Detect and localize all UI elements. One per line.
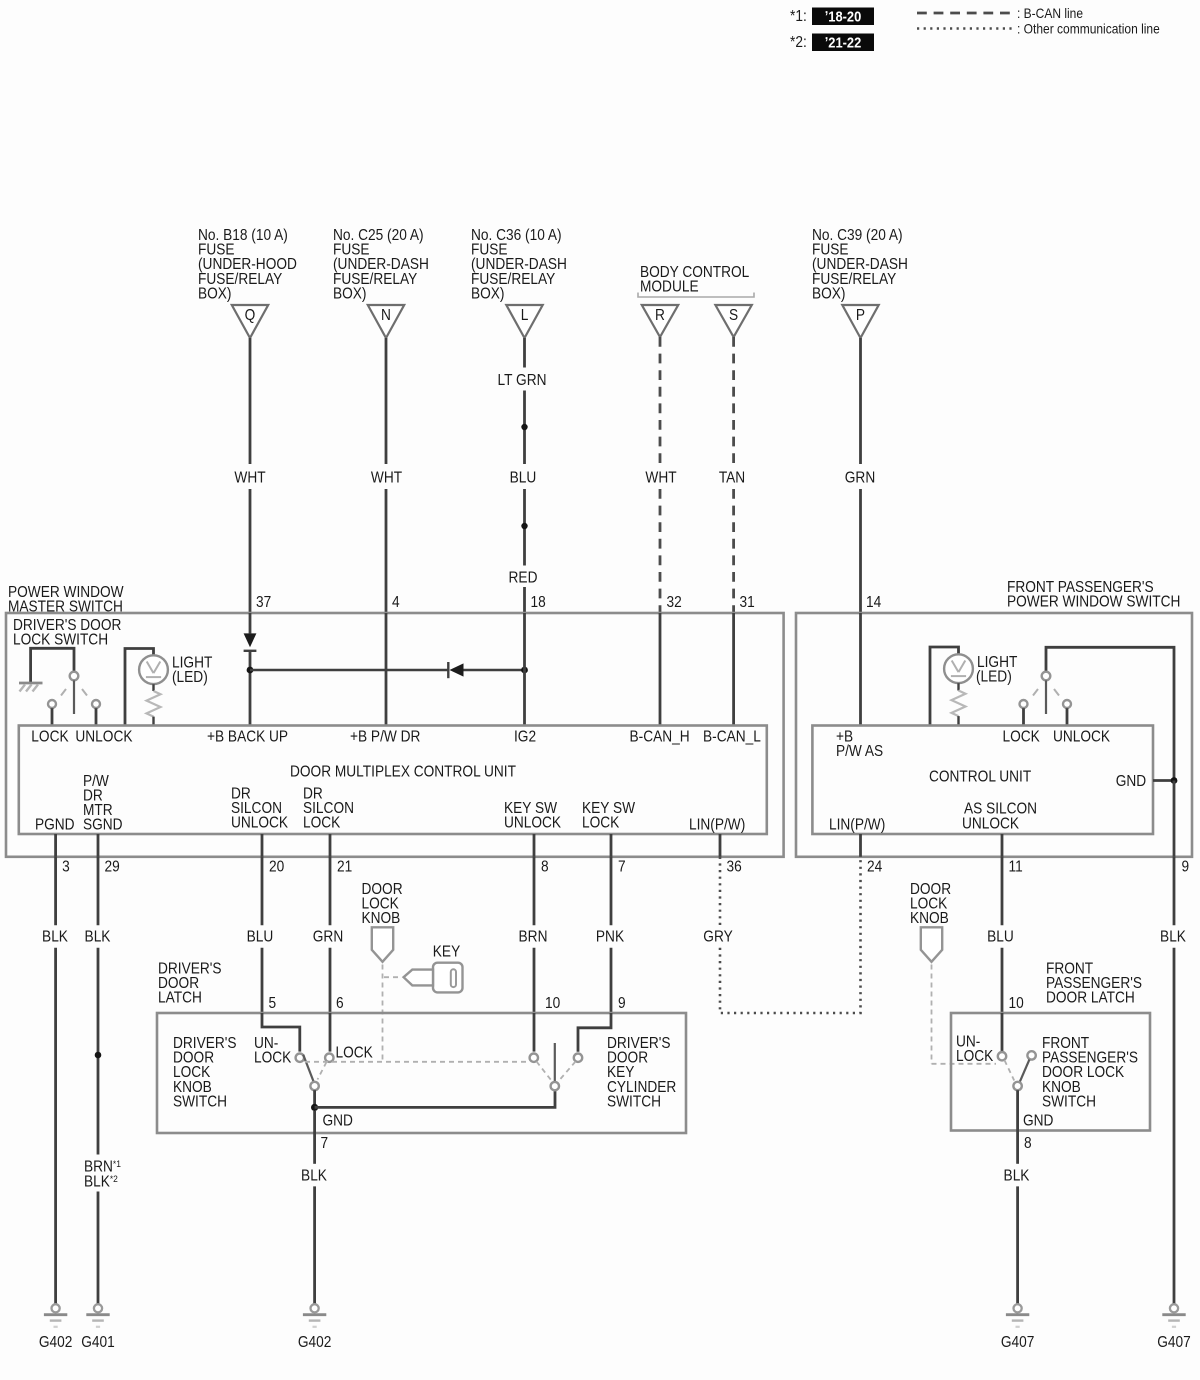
svg-text:BOX): BOX)	[471, 286, 504, 303]
unit pin label GND (passenger)	[1116, 773, 1146, 790]
unit pin label UNLOCK (passenger)	[1053, 729, 1110, 746]
svg-text:BLK: BLK	[42, 929, 68, 946]
wire 29 BLK to G401	[97, 857, 100, 1304]
unit pin label B-CAN_H	[630, 729, 690, 746]
svg-text:*2:: *2:	[790, 34, 807, 51]
unit pin label +B BACK UP	[207, 729, 288, 746]
svg-text:UNLOCK: UNLOCK	[962, 816, 1019, 833]
splice dot on wire 18 upper	[521, 424, 527, 430]
svg-text:LOCK: LOCK	[1003, 729, 1041, 746]
knob switch pivot (driver)	[310, 1082, 318, 1090]
resistor stub to unit (passenger)	[957, 716, 959, 725]
unit pin label LOCK (passenger)	[1003, 729, 1041, 746]
wire 14 inside box	[859, 613, 862, 726]
diode bar on horizontal wire	[447, 662, 449, 678]
svg-text:MODULE: MODULE	[640, 279, 699, 296]
passenger switch LOCK contact	[1020, 700, 1028, 726]
svg-text:ʼ21-22: ʼ21-22	[825, 35, 862, 51]
svg-text:G407: G407	[1157, 1334, 1190, 1351]
passenger lock switch arm	[1045, 680, 1047, 714]
svg-text:B-CAN_L: B-CAN_L	[703, 729, 761, 746]
key cyl pivot	[551, 1082, 559, 1090]
driver door latch box	[157, 1013, 686, 1133]
wire pin9 inside box	[1173, 781, 1176, 857]
label BLK (wire 3)	[42, 929, 68, 946]
svg-text:G407: G407	[1001, 1334, 1034, 1351]
body control module label	[640, 264, 749, 296]
svg-text:7: 7	[618, 859, 626, 876]
pin 9 (driver latch)	[618, 995, 626, 1012]
svg-text:18: 18	[531, 594, 546, 611]
unit pin label DR SILCON UNLOCK	[231, 786, 288, 832]
wire 31 inside box	[732, 613, 735, 726]
pin 11 (passenger box bottom)	[1009, 859, 1023, 876]
pin 18	[531, 594, 546, 611]
svg-text:UNLOCK: UNLOCK	[504, 815, 561, 832]
label BLK (wire 7)	[301, 1168, 327, 1185]
unit pin label KEY SW UNLOCK	[504, 800, 561, 832]
LED-resistor stub (master)	[152, 684, 154, 691]
unit pin label LOCK	[31, 729, 69, 746]
GND junction dot (driver latch)	[311, 1104, 318, 1111]
svg-text:GND: GND	[1023, 1113, 1053, 1130]
splice dot on wire 29	[95, 1052, 102, 1059]
svg-text:37: 37	[256, 594, 271, 611]
wire 5 inside latch	[262, 1013, 300, 1052]
unit pin label DR SILCON LOCK	[303, 786, 354, 832]
svg-text:SWITCH: SWITCH	[173, 1094, 227, 1111]
svg-text:SWITCH: SWITCH	[607, 1094, 661, 1111]
svg-text:4: 4	[392, 594, 400, 611]
stub wire pin11	[1001, 834, 1004, 857]
label UN-LOCK (passenger latch)	[956, 1034, 994, 1066]
wire 36 GRY dotted LIN loop to pin 24	[720, 857, 861, 1013]
svg-text:P/W AS: P/W AS	[836, 743, 883, 760]
unit name DOOR MULTIPLEX CONTROL UNIT	[290, 764, 516, 781]
svg-text:LOCK SWITCH: LOCK SWITCH	[13, 632, 108, 649]
svg-text:20: 20	[269, 859, 284, 876]
wire 4 inside box	[385, 613, 388, 726]
svg-text:LOCK: LOCK	[336, 1045, 374, 1062]
key symbol	[404, 963, 463, 993]
svg-text:BRN: BRN	[519, 929, 548, 946]
knob switch arm (driver)	[303, 1055, 313, 1082]
svg-text:24: 24	[867, 859, 882, 876]
mech dashed horizontal knob-keycyl	[305, 1061, 529, 1063]
splice dot on wire 18 lower	[521, 523, 527, 529]
svg-text:GRN: GRN	[845, 470, 875, 487]
fuse No. C36 (10 A) label	[471, 227, 567, 302]
diode on wire 37	[244, 633, 257, 650]
svg-text:9: 9	[618, 995, 626, 1012]
ground G407 (wire 8)	[1001, 1304, 1034, 1351]
door lock knob symbol (passenger)	[921, 927, 942, 962]
label WHT (wire 4)	[371, 470, 402, 487]
svg-text:SWITCH: SWITCH	[1042, 1094, 1096, 1111]
pin 37	[256, 594, 271, 611]
label PNK (wire 7)	[596, 929, 624, 946]
svg-text:IG2: IG2	[514, 729, 536, 746]
note *1 18-20	[790, 8, 874, 26]
pin 9 (passenger box bottom)	[1182, 859, 1190, 876]
junction dot wire18/feed	[521, 667, 528, 674]
label BLU (wire 20)	[247, 929, 274, 946]
wire 10 inside latch	[533, 1013, 536, 1052]
svg-text:TAN: TAN	[719, 470, 745, 487]
svg-text:BLK: BLK	[1160, 929, 1186, 946]
label LIGHT (LED) passenger	[976, 654, 1017, 685]
label LT GRN	[498, 372, 547, 389]
svg-text:LT GRN: LT GRN	[498, 372, 547, 389]
driver door lock switch bracket wire	[31, 648, 74, 683]
door multiplex control unit box	[19, 726, 767, 835]
driver door lock switch label	[13, 617, 121, 649]
KEY label	[433, 944, 461, 961]
svg-text:LOCK: LOCK	[956, 1048, 994, 1065]
svg-text:G401: G401	[81, 1334, 114, 1351]
svg-text:POWER WINDOW SWITCH: POWER WINDOW SWITCH	[1007, 594, 1180, 611]
wire 11 BLU to passenger latch	[1001, 857, 1004, 1013]
label BRN*1 BLK*2	[84, 1158, 121, 1190]
stub wire x=262 through master box bottom	[261, 834, 264, 857]
svg-text:R: R	[655, 307, 665, 324]
key cyl switch arm	[554, 1043, 556, 1082]
stub wire x=534 through master box bottom	[533, 834, 536, 857]
wire 32 inside box	[659, 613, 662, 726]
driver lock switch LOCK contact	[48, 700, 56, 726]
svg-text:32: 32	[667, 594, 682, 611]
svg-text:BLU: BLU	[510, 470, 537, 487]
stub wire x=330 through master box bottom	[329, 834, 332, 857]
pin 10 (driver latch)	[545, 995, 560, 1012]
wire N to pin 4 (WHT)	[385, 338, 388, 613]
wire 37 below diode	[249, 652, 252, 726]
svg-text:14: 14	[866, 594, 881, 611]
key cyl right contact	[574, 1054, 582, 1062]
connector L (fuse C36)	[506, 305, 542, 338]
driver lock switch throw dashes	[61, 689, 87, 696]
svg-text:BLU: BLU	[987, 929, 1014, 946]
passenger lock switch throw dashes	[1033, 689, 1059, 696]
svg-text:(LED): (LED)	[172, 669, 208, 686]
svg-text:PGND: PGND	[35, 817, 75, 834]
unit pin label B-CAN_L	[703, 729, 761, 746]
svg-text:GRN: GRN	[313, 929, 343, 946]
label BRN (wire 8)	[519, 929, 548, 946]
driver door key cylinder switch label	[607, 1035, 676, 1110]
svg-text:KNOB: KNOB	[910, 911, 949, 928]
knob switch arm (passenger)	[1020, 1060, 1030, 1082]
GND stub to junction	[1153, 779, 1174, 782]
driver lock switch UNLOCK contact	[92, 700, 100, 726]
svg-text:LIN(P/W): LIN(P/W)	[829, 817, 885, 834]
pin 20 (master box bottom)	[269, 859, 284, 876]
GND horizontal wire in latch	[315, 1090, 555, 1107]
GND junction dot	[1171, 777, 1178, 784]
svg-text:: B-CAN line: : B-CAN line	[1017, 5, 1083, 21]
svg-text:BLU: BLU	[247, 929, 274, 946]
driver lock switch pivot	[70, 672, 79, 681]
body control module bracket	[638, 293, 754, 298]
control unit box (passenger)	[812, 726, 1153, 835]
unit pin label P/W DR MTR SGND	[83, 773, 123, 834]
driver lock switch arm	[73, 680, 75, 714]
pin 10 (passenger latch)	[1009, 995, 1024, 1012]
pin 8 (master box bottom)	[541, 859, 549, 876]
legend Other communication line sample	[917, 21, 1160, 37]
light LED (master)	[139, 655, 168, 684]
svg-text:LIN(P/W): LIN(P/W)	[689, 817, 745, 834]
svg-text:BLK: BLK	[85, 929, 111, 946]
front passenger power window switch box	[796, 613, 1192, 857]
ground G402 (wire 3)	[39, 1304, 72, 1351]
label BLU (wire 18)	[510, 470, 537, 487]
svg-text:S: S	[729, 307, 738, 324]
passenger lock switch top wire to GND junction	[1046, 647, 1174, 780]
svg-text:G402: G402	[298, 1334, 331, 1351]
legend B-CAN line sample	[917, 5, 1083, 21]
label BLK (wire 8)	[1004, 1168, 1030, 1185]
ground G407 (wire 9)	[1157, 1304, 1190, 1351]
svg-text:*1:: *1:	[790, 8, 807, 25]
wire S to pin 31, B-CAN dashed	[732, 337, 735, 613]
connector Q (fuse B18)	[232, 305, 268, 338]
door lock knob label (driver)	[362, 881, 403, 927]
knob mechanical dashed link (passenger)	[932, 965, 997, 1064]
svg-text:GND: GND	[1116, 773, 1146, 790]
svg-text:6: 6	[336, 995, 344, 1012]
svg-text:+B P/W DR: +B P/W DR	[350, 729, 420, 746]
svg-text:10: 10	[545, 995, 560, 1012]
svg-text:5: 5	[269, 995, 277, 1012]
svg-text:UNLOCK: UNLOCK	[75, 729, 132, 746]
svg-text:LOCK: LOCK	[303, 815, 341, 832]
backup feed horizontal wire	[250, 669, 448, 671]
svg-text:KEY: KEY	[433, 944, 461, 961]
svg-text:KNOB: KNOB	[362, 911, 401, 928]
svg-text:UNLOCK: UNLOCK	[1053, 729, 1110, 746]
front passenger door latch label	[1046, 961, 1142, 1007]
wire 8 BLK below passenger latch	[1016, 1131, 1019, 1304]
label GRY (wire 36)	[703, 929, 733, 946]
chassis ground (driver door lock switch)	[19, 683, 43, 692]
svg-text:36: 36	[727, 859, 742, 876]
knob switch mech dash diagonal (passenger)	[1005, 1060, 1015, 1080]
unit pin label KEY SW LOCK	[582, 800, 635, 832]
wire 37 +B BACK UP with diode	[249, 613, 252, 633]
label LOCK (driver latch)	[336, 1045, 374, 1062]
svg-text:21: 21	[337, 859, 352, 876]
LED wire (passenger)	[930, 647, 959, 726]
svg-text:ʼ18-20: ʼ18-20	[825, 9, 862, 25]
unit pin label LIN(P/W)	[689, 817, 745, 834]
label BLK (wire 29)	[85, 929, 111, 946]
svg-text:BLK: BLK	[1004, 1168, 1030, 1185]
connector P (fuse C39)	[842, 305, 878, 338]
svg-text:GRY: GRY	[703, 929, 733, 946]
label WHT (wire 32)	[645, 470, 676, 487]
svg-text:9: 9	[1182, 859, 1190, 876]
LOCK contact (passenger knob switch)	[1027, 1051, 1035, 1059]
svg-text:+B BACK UP: +B BACK UP	[207, 729, 288, 746]
ground G401 (wire 29)	[81, 1304, 114, 1351]
label GRN (wire 14)	[845, 470, 875, 487]
unit pin label UNLOCK	[75, 729, 132, 746]
knob mechanical dashed link (driver)	[382, 965, 384, 1062]
unit pin label IG2	[514, 729, 536, 746]
wire 9 inside latch	[578, 1013, 611, 1052]
pin 7 (master box bottom)	[618, 859, 626, 876]
wire P to pin 14 (GRN)	[859, 338, 862, 613]
svg-text:DOOR LATCH: DOOR LATCH	[1046, 990, 1135, 1007]
svg-text:P: P	[856, 307, 865, 324]
svg-text:L: L	[521, 307, 529, 324]
wire 8 BRN to latch	[533, 857, 536, 1013]
wire 7 GND below latch	[313, 1111, 316, 1304]
unit pin label AS SILCON UNLOCK	[962, 801, 1037, 833]
svg-text:N: N	[381, 307, 391, 324]
wire 20 BLU to latch	[261, 857, 264, 1013]
stub wire pin36 (solid part)	[719, 834, 722, 857]
front passenger door lock knob switch label	[1042, 1035, 1138, 1110]
wire 3 BLK to G402	[54, 857, 57, 1304]
door lock knob symbol (driver)	[372, 927, 393, 962]
svg-text:31: 31	[740, 594, 755, 611]
svg-text:WHT: WHT	[371, 470, 402, 487]
pin 14	[866, 594, 881, 611]
unit pin label PGND	[35, 817, 75, 834]
UNLOCK contact (knob switch)	[296, 1054, 304, 1062]
label GND (driver latch)	[323, 1113, 353, 1130]
pivot stem wire (passenger)	[1016, 1090, 1019, 1130]
note *2 21-22	[790, 34, 874, 52]
svg-text:RED: RED	[509, 570, 538, 587]
svg-text:SGND: SGND	[83, 817, 123, 834]
wire 6 inside latch	[329, 1013, 332, 1052]
label BLK (wire 9)	[1160, 929, 1186, 946]
key mechanical dashed link	[384, 976, 402, 978]
svg-text:29: 29	[105, 859, 120, 876]
label RED (wire 18)	[509, 570, 538, 587]
wire L to pin 18 (LT GRN/BLU/RED)	[523, 338, 526, 613]
svg-text:GND: GND	[323, 1113, 353, 1130]
LOCK contact (knob switch)	[325, 1054, 333, 1062]
wire R to pin 32, B-CAN dashed	[659, 337, 662, 613]
knob switch pivot (passenger)	[1013, 1082, 1021, 1090]
pin 21 (master box bottom)	[337, 859, 352, 876]
passenger lock switch pivot	[1042, 672, 1051, 681]
svg-text:LOCK: LOCK	[254, 1050, 292, 1067]
stub wire x=611 through master box bottom	[610, 834, 613, 857]
unit name CONTROL UNIT	[929, 769, 1031, 786]
unit pin label LIN(P/W) passenger	[829, 817, 885, 834]
pin 6 (driver latch)	[336, 995, 344, 1012]
label BLU (wire 11)	[987, 929, 1014, 946]
UNLOCK contact (passenger knob switch)	[998, 1052, 1006, 1060]
connector R (BCM)	[642, 305, 678, 337]
junction dot wire37/backup feed	[247, 667, 254, 674]
label GRN (wire 21)	[313, 929, 343, 946]
pin 29 (master box bottom)	[105, 859, 120, 876]
svg-text:BOX): BOX)	[198, 286, 231, 303]
knob switch mech dash diagonal (driver)	[318, 1062, 327, 1080]
power window master switch label	[8, 584, 124, 616]
svg-text:LOCK: LOCK	[582, 815, 620, 832]
key cyl mech dashes	[537, 1062, 576, 1081]
resistor stub to unit (master)	[152, 717, 154, 726]
svg-text:11: 11	[1009, 859, 1023, 876]
pin 31	[740, 594, 755, 611]
label GND (passenger latch)	[1023, 1113, 1053, 1130]
wire 21 GRN to latch	[329, 857, 332, 1013]
svg-text:LATCH: LATCH	[158, 990, 202, 1007]
svg-text:BLK: BLK	[301, 1168, 327, 1185]
svg-text:B-CAN_H: B-CAN_H	[630, 729, 690, 746]
svg-text:Q: Q	[245, 307, 256, 324]
svg-text:DOOR MULTIPLEX CONTROL UNIT: DOOR MULTIPLEX CONTROL UNIT	[290, 764, 516, 781]
pin 36 (master box bottom)	[727, 859, 742, 876]
stub wire x=98 through master box bottom	[97, 834, 100, 857]
label WHT (wire 37)	[234, 470, 265, 487]
front passenger power window switch label	[1007, 579, 1180, 611]
label LIGHT (LED) master	[172, 655, 212, 686]
svg-text:BOX): BOX)	[333, 286, 366, 303]
pin 5 (driver latch)	[269, 995, 277, 1012]
key cyl left contact	[530, 1054, 538, 1062]
svg-text:10: 10	[1009, 995, 1024, 1012]
wire 7 PNK to latch	[610, 857, 613, 1013]
svg-text:8: 8	[1024, 1135, 1032, 1152]
pin 4	[392, 594, 400, 611]
svg-text:(LED): (LED)	[976, 669, 1012, 686]
pin 7 (latch bottom)	[321, 1135, 329, 1152]
label TAN (wire 31)	[719, 470, 745, 487]
connector S (BCM)	[715, 305, 751, 337]
power window master switch box	[6, 613, 784, 857]
passenger switch UNLOCK contact	[1063, 700, 1071, 726]
LED wire (master)	[125, 649, 154, 726]
fuse No. C25 (20 A) label	[333, 227, 429, 302]
wire Q to pin 37 (WHT)	[249, 338, 252, 613]
door lock knob label (passenger)	[910, 881, 951, 927]
wire 18 inside box	[523, 613, 526, 726]
svg-text:8: 8	[541, 859, 549, 876]
svg-text:3: 3	[62, 859, 70, 876]
connector N (fuse C25)	[368, 305, 404, 338]
arrow (left) on horizontal wire	[450, 663, 525, 676]
svg-text:G402: G402	[39, 1334, 72, 1351]
light LED (passenger)	[944, 654, 973, 683]
front passenger door latch box	[951, 1013, 1150, 1131]
svg-text:UNLOCK: UNLOCK	[231, 815, 288, 832]
svg-text:CONTROL UNIT: CONTROL UNIT	[929, 769, 1031, 786]
fuse No. C39 (20 A) label	[812, 227, 908, 302]
wire 9 BLK to G407	[1173, 857, 1176, 1304]
pin 24 (passenger box bottom)	[867, 859, 882, 876]
driver door latch label	[158, 961, 222, 1007]
svg-text:LOCK: LOCK	[31, 729, 69, 746]
wire 11 inside latch	[1001, 1013, 1004, 1052]
svg-text:BOX): BOX)	[812, 286, 845, 303]
driver door lock knob switch label	[173, 1035, 237, 1110]
resistor (master LED)	[147, 691, 161, 717]
pin 3 (master box bottom)	[62, 859, 70, 876]
fuse No. B18 (10 A) label	[198, 227, 297, 302]
resistor (passenger LED)	[952, 691, 966, 717]
stub wire x=55.6 through master box bottom	[54, 834, 57, 857]
pin 8 (passenger latch bottom)	[1024, 1135, 1032, 1152]
svg-text:WHT: WHT	[645, 470, 676, 487]
